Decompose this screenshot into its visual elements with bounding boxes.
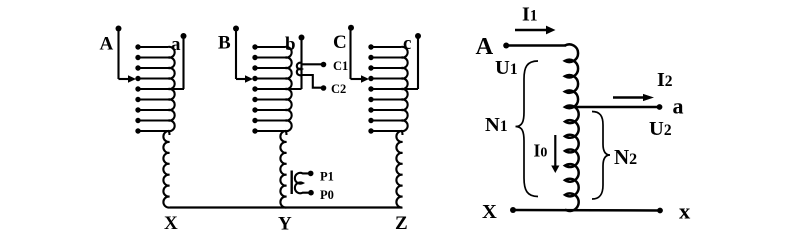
terminal b dot <box>299 35 305 41</box>
terminal B dot <box>233 26 239 32</box>
svg-text:C2: C2 <box>331 82 346 96</box>
svg-text:U2: U2 <box>649 118 672 140</box>
terminal a dot (right) <box>657 104 663 110</box>
svg-text:A: A <box>100 34 114 55</box>
arrow I1 current <box>515 29 547 32</box>
svg-text:X: X <box>164 213 178 234</box>
wire to C1 <box>302 63 322 65</box>
winding B-Y series squiggle <box>280 131 286 208</box>
autotransformer winding coil <box>565 44 579 211</box>
svg-text:X: X <box>482 201 497 223</box>
svg-text:a: a <box>673 94 684 119</box>
winding C-Z series squiggle <box>396 131 402 208</box>
tap selector coil on b lead <box>297 63 302 76</box>
arrow I2 current <box>613 96 644 99</box>
wire A to coil <box>506 44 566 47</box>
svg-text:A: A <box>476 33 494 60</box>
svg-text:I0: I0 <box>534 141 548 161</box>
wire tap to a <box>565 106 660 109</box>
svg-text:P1: P1 <box>320 170 334 184</box>
terminal A dot <box>116 26 122 32</box>
terminal C1 dot <box>321 62 327 68</box>
terminal X dot (right) <box>510 207 516 213</box>
brace N2 <box>592 112 610 200</box>
svg-text:x: x <box>679 199 691 224</box>
terminal a dot <box>181 33 187 39</box>
svg-text:C1: C1 <box>333 59 348 73</box>
wire a lead <box>182 36 184 89</box>
terminal P0 dot <box>308 190 314 196</box>
svg-text:Y: Y <box>278 214 292 235</box>
svg-text:N1: N1 <box>485 114 508 136</box>
terminal C dot <box>348 25 354 31</box>
arrow into winding A tap <box>119 78 130 80</box>
svg-text:Z: Z <box>395 213 408 234</box>
svg-text:c: c <box>403 33 411 54</box>
wire b lead <box>300 38 302 90</box>
terminal A dot (right) <box>503 43 509 49</box>
winding B-Y turns <box>252 44 301 133</box>
arrow into winding B tap <box>236 78 246 80</box>
svg-text:b: b <box>285 34 296 55</box>
terminal P1 dot <box>308 171 314 177</box>
wire X to x <box>513 209 660 212</box>
svg-text:N2: N2 <box>614 145 637 169</box>
terminal c dot <box>415 33 421 39</box>
brace N1 <box>516 61 539 197</box>
terminal x dot (right) <box>657 208 663 214</box>
svg-text:a: a <box>171 34 181 55</box>
wire C lead <box>349 28 351 79</box>
wire A lead <box>117 29 119 80</box>
svg-text:P0: P0 <box>320 188 334 202</box>
svg-text:I2: I2 <box>657 69 673 91</box>
winding A-X series squiggle <box>163 131 169 208</box>
arrow I0 current <box>554 135 556 166</box>
tap selector coil P <box>295 173 311 193</box>
wire bottom bus X-Y-Z <box>170 206 402 208</box>
tap contact bar <box>291 171 293 195</box>
wire B lead <box>235 29 237 80</box>
svg-text:C: C <box>333 32 347 53</box>
svg-text:I1: I1 <box>522 4 538 26</box>
arrow into winding C tap <box>351 78 363 80</box>
wire c lead <box>417 36 419 89</box>
terminal C2 dot <box>321 85 327 91</box>
svg-text:U1: U1 <box>495 57 518 79</box>
winding A-X turns <box>135 44 184 133</box>
wire to C2 <box>302 75 322 88</box>
svg-text:B: B <box>218 33 231 54</box>
winding C-Z turns <box>368 44 418 133</box>
